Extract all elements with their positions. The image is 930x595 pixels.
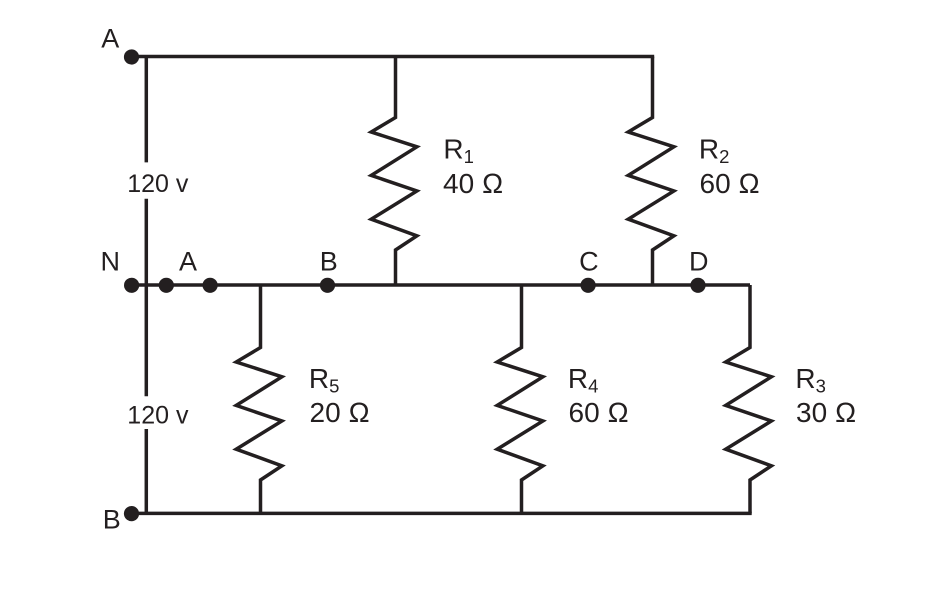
node A (middle) junction dot — [203, 278, 218, 293]
svg-text:R5: R5 — [309, 363, 340, 397]
wire: left feeder segment A to first 120v label — [145, 57, 149, 163]
svg-text:N: N — [101, 247, 121, 277]
svg-text:60 Ω: 60 Ω — [700, 168, 760, 199]
svg-text:60 Ω: 60 Ω — [569, 397, 629, 428]
svg-text:120 v: 120 v — [127, 402, 189, 430]
svg-text:A: A — [101, 23, 119, 53]
svg-text:20 Ω: 20 Ω — [310, 397, 370, 428]
svg-text:40 Ω: 40 Ω — [443, 168, 503, 199]
node C junction dot — [581, 278, 596, 293]
wire: left feeder segment between 120v labels — [145, 199, 149, 397]
svg-text:B: B — [103, 505, 121, 535]
wire: left feeder segment below second 120v label to B — [145, 429, 149, 513]
wire: top bus from node A to R2 corner — [131, 55, 654, 59]
node N junction dot — [124, 278, 139, 293]
node A (top) junction dot — [124, 49, 139, 64]
svg-text:120 v: 120 v — [127, 170, 189, 198]
resistor R3 — [726, 285, 772, 513]
junction dot left of node A on neutral bus — [159, 278, 174, 293]
resistor R2 — [628, 57, 674, 286]
wire: bottom bus from node B to R3 — [126, 512, 752, 516]
node D junction dot — [690, 278, 705, 293]
svg-text:C: C — [579, 247, 599, 277]
svg-text:A: A — [179, 247, 197, 277]
node B (middle) junction dot — [320, 278, 335, 293]
svg-text:D: D — [689, 247, 709, 277]
resistor R4 — [497, 285, 543, 513]
svg-text:B: B — [320, 247, 338, 277]
resistor R1 — [371, 57, 417, 286]
svg-text:R2: R2 — [699, 134, 730, 168]
svg-text:R3: R3 — [795, 363, 826, 397]
node B (bottom) junction dot — [124, 506, 139, 521]
svg-text:R1: R1 — [443, 134, 474, 168]
wire: middle neutral bus N to R3 corner — [126, 283, 750, 287]
svg-text:30 Ω: 30 Ω — [796, 397, 856, 428]
resistor R5 — [236, 285, 282, 513]
svg-text:R4: R4 — [568, 363, 599, 397]
